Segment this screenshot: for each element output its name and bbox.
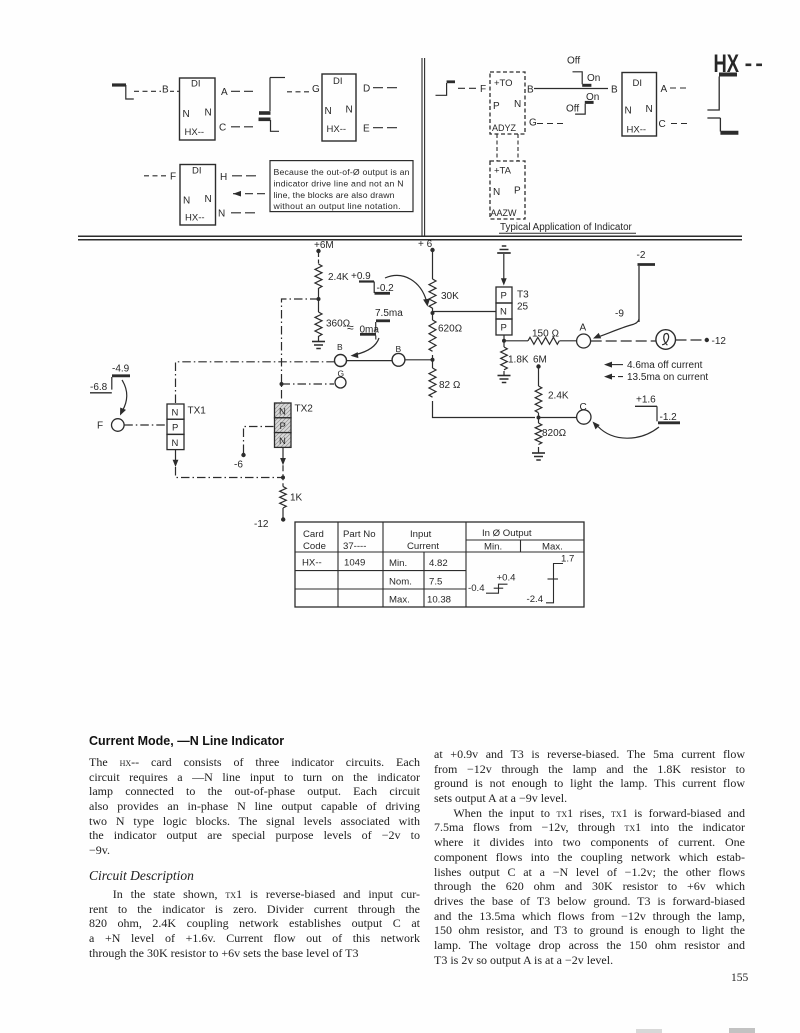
wire 30K to 620	[432, 308, 434, 320]
svg-text:P: P	[501, 291, 507, 302]
junction dot 620/82	[431, 358, 435, 362]
arrow TX2 emitter down	[280, 448, 286, 466]
svg-text:F: F	[97, 421, 103, 432]
svg-text:N: N	[183, 196, 190, 207]
svg-text:N: N	[183, 109, 190, 120]
arrow waveform to circle C	[593, 422, 660, 439]
wire circle B right to divider junction	[405, 359, 433, 361]
node -6	[234, 453, 246, 471]
svg-text:B: B	[396, 344, 402, 354]
wire 82 to coupling node	[433, 401, 536, 418]
svg-text:H: H	[220, 172, 227, 183]
svg-text:G: G	[312, 84, 320, 95]
wire 2.4K to 820	[538, 413, 540, 423]
svg-text:E: E	[363, 124, 370, 135]
svg-text:-2: -2	[637, 250, 646, 261]
waveform on-to-off (lower)	[575, 102, 593, 114]
node circle G	[335, 369, 346, 389]
node circle F	[97, 419, 124, 432]
svg-text:Current: Current	[407, 541, 439, 552]
node +6	[418, 239, 435, 252]
wire 620 to 82	[432, 355, 434, 368]
svg-text:-9: -9	[615, 309, 624, 320]
arrow 4.6ma off current	[604, 360, 703, 371]
svg-text:Min.: Min.	[389, 558, 407, 569]
svg-text:-6: -6	[234, 460, 243, 471]
waveform -2	[637, 250, 656, 322]
resistor 620 ohm	[429, 320, 436, 351]
svg-text:ADYZ: ADYZ	[492, 123, 517, 133]
svg-text:10.38: 10.38	[427, 595, 451, 606]
svg-text:7.5ma: 7.5ma	[375, 308, 403, 319]
svg-text:B: B	[611, 85, 618, 96]
resistor 150 ohm (horizontal)	[528, 337, 559, 344]
wire dashed to B	[134, 90, 161, 92]
node circle C	[577, 402, 591, 424]
horizontal section divider (double rule)	[78, 236, 742, 240]
waveform +1.6/-1.2	[635, 395, 680, 424]
svg-text:Typical Application of Indicat: Typical Application of Indicator	[500, 222, 633, 233]
wire output H	[232, 175, 258, 177]
ground above T3	[497, 246, 511, 253]
svg-text:P: P	[280, 421, 286, 432]
svg-text:F: F	[170, 172, 176, 183]
svg-text:N: N	[500, 307, 507, 318]
waveform -4.9/-6.8	[90, 364, 130, 394]
svg-text:DI: DI	[192, 166, 202, 177]
svg-text:N: N	[625, 106, 632, 117]
svg-text:DI: DI	[333, 76, 343, 87]
svg-text:25: 25	[517, 302, 529, 313]
node circle A	[577, 323, 591, 349]
svg-text:620Ω: 620Ω	[438, 324, 462, 335]
logic block U2 HX (DI)	[322, 74, 356, 141]
svg-text:+0.4: +0.4	[497, 573, 517, 584]
svg-text:6M: 6M	[533, 355, 547, 366]
waveform input F (step-up)	[436, 82, 456, 96]
node -12 (lamp)	[705, 336, 727, 347]
waveform 7.5ma/0ma	[347, 308, 403, 340]
wire -6 to TX2 base	[244, 427, 275, 454]
node +6M	[314, 240, 334, 253]
junction dot T3/150/1.8K	[502, 339, 506, 343]
arrow from note box to block U3	[233, 191, 269, 197]
svg-text:On: On	[587, 73, 600, 84]
indicator block AAZW (+TA)	[490, 161, 525, 219]
svg-text:Nom.: Nom.	[389, 577, 412, 588]
ground (360 ohm)	[312, 342, 325, 349]
arrow 13.5ma on current	[604, 372, 708, 383]
svg-text:-6.8: -6.8	[90, 382, 108, 393]
svg-text:D: D	[363, 84, 370, 95]
page number	[731, 972, 748, 984]
wire F to TX1	[124, 424, 167, 426]
svg-text:N: N	[205, 108, 212, 119]
svg-text:2.4K: 2.4K	[548, 391, 569, 402]
wire output C	[231, 126, 255, 128]
min output waveform	[468, 573, 516, 595]
svg-text:DI: DI	[191, 79, 201, 90]
logic block U4 HX (DI)	[622, 73, 657, 137]
svg-text:G: G	[529, 118, 537, 129]
svg-text:1049: 1049	[344, 558, 365, 569]
wire output A	[231, 90, 254, 92]
wire T3 emitter down	[503, 335, 505, 347]
svg-text:In Ø Output: In Ø Output	[482, 528, 532, 539]
wire TX2 to 1K	[282, 465, 284, 486]
ground (820)	[532, 453, 545, 460]
resistor 30K	[429, 279, 436, 308]
wire output N	[231, 212, 256, 214]
node circle B	[335, 342, 347, 367]
bottom two-column text	[89, 734, 420, 960]
svg-text:N: N	[325, 106, 332, 117]
svg-text:F: F	[480, 84, 486, 95]
svg-text:P: P	[493, 101, 500, 112]
svg-text:A: A	[661, 84, 668, 95]
junction dot 2.4K/820/C	[537, 416, 541, 420]
transistor TX1	[167, 404, 206, 450]
svg-text:A: A	[221, 87, 228, 98]
svg-text:≈: ≈	[347, 321, 354, 335]
svg-text:37----: 37----	[343, 541, 366, 552]
wire output C	[671, 123, 691, 125]
wire 1K to -12	[282, 508, 284, 518]
svg-text:Max.: Max.	[542, 542, 563, 553]
node circle B (right)	[392, 344, 405, 366]
logic block U3 HX (DI)	[180, 165, 216, 226]
wire junction to T3 base	[433, 311, 497, 313]
connector ADYZ to AAZW (right)	[517, 134, 519, 161]
svg-text:HX--: HX--	[327, 124, 347, 135]
svg-text:-4.9: -4.9	[112, 364, 130, 375]
svg-text:Card: Card	[303, 529, 324, 540]
svg-text:-12: -12	[254, 519, 269, 530]
resistor 2.4K (left)	[315, 264, 322, 288]
svg-text:-2.4: -2.4	[527, 594, 544, 605]
waveform input G (two-bar step)	[259, 78, 286, 132]
wire output A	[670, 87, 687, 89]
svg-text:13.5ma on current: 13.5ma on current	[627, 372, 708, 383]
svg-text:2.4K: 2.4K	[328, 272, 349, 283]
wire +6 to 30K	[432, 252, 434, 279]
output A waveform (large)	[707, 75, 737, 111]
svg-text:Off: Off	[567, 56, 580, 67]
wire 1.8K to ground	[503, 371, 505, 375]
wire junction to 150 ohm	[506, 340, 528, 342]
svg-text:T3: T3	[517, 290, 529, 301]
svg-text:+6M: +6M	[314, 240, 334, 251]
note box	[270, 161, 413, 212]
svg-text:P: P	[172, 423, 178, 434]
wire B to block	[170, 90, 179, 92]
table data text	[302, 558, 451, 606]
connector ADYZ to AAZW (left)	[496, 134, 498, 161]
svg-text:HX--: HX--	[627, 125, 647, 136]
svg-text:HX--: HX--	[185, 127, 205, 138]
svg-text:1.7: 1.7	[561, 554, 574, 565]
output C waveform (large)	[707, 118, 738, 133]
arrow waveform to circle F	[120, 380, 127, 416]
wire dashed to F	[458, 87, 477, 89]
svg-text:+0.9: +0.9	[351, 271, 371, 282]
svg-text:HX--: HX--	[185, 213, 205, 224]
HX-- card title	[714, 50, 763, 78]
indicator block ADYZ (+TO)	[490, 72, 525, 134]
lamp	[656, 330, 676, 350]
wire output E	[373, 127, 397, 129]
svg-text:DI: DI	[633, 78, 643, 89]
svg-text:C: C	[659, 119, 666, 130]
svg-text:AAZW: AAZW	[491, 208, 518, 218]
svg-text:1K: 1K	[290, 493, 303, 504]
bottom edge scan smudges	[636, 1029, 662, 1033]
svg-text:TX1: TX1	[188, 406, 207, 417]
junction dot 2.4K/360	[317, 297, 321, 301]
wire lamp to -12	[676, 339, 705, 341]
max output waveform	[527, 554, 575, 606]
wire circle A to lamp	[591, 340, 656, 342]
wire output D	[373, 87, 397, 89]
wire G stub	[537, 123, 565, 125]
logic block U1 HX (DI)	[180, 78, 216, 140]
wire circle B to circle B right	[346, 360, 392, 362]
arrow 0ma to circle B	[351, 338, 380, 358]
svg-text:30K: 30K	[441, 291, 459, 302]
svg-text:P: P	[514, 186, 521, 197]
svg-text:N: N	[218, 209, 225, 220]
wire 2.4K to 360	[318, 288, 320, 312]
svg-text:-12: -12	[712, 336, 727, 347]
wire dash-dot TX1 to circle B	[176, 362, 335, 404]
arrow -2 line to circle A	[593, 319, 639, 339]
svg-text:N: N	[493, 187, 500, 198]
svg-text:B: B	[337, 342, 343, 352]
svg-text:HX--: HX--	[302, 558, 322, 569]
junction dot below TX2	[281, 476, 285, 480]
ground (1.8K)	[498, 376, 511, 383]
svg-text:Max.: Max.	[389, 595, 410, 606]
node -12	[254, 517, 285, 530]
svg-text:Because the out-of-Ø output is: Because the out-of-Ø output is an	[274, 167, 410, 177]
svg-text:N: N	[205, 194, 212, 205]
svg-text:B: B	[527, 85, 534, 96]
arrow ground into T3 collector	[501, 254, 507, 286]
vertical section divider (double rule)	[422, 58, 425, 236]
table header text	[303, 528, 563, 553]
svg-text:A: A	[580, 323, 587, 334]
svg-text:B: B	[162, 85, 169, 96]
svg-text:TX2: TX2	[295, 404, 314, 415]
svg-text:Input: Input	[410, 529, 432, 540]
svg-text:N: N	[279, 436, 286, 447]
svg-text:C: C	[219, 123, 226, 134]
svg-text:4.82: 4.82	[429, 558, 448, 569]
svg-text:-1.2: -1.2	[660, 412, 678, 423]
svg-text:82 Ω: 82 Ω	[439, 380, 461, 391]
resistor 820 ohm	[535, 423, 542, 445]
wire junction to circle C	[541, 417, 577, 419]
wire 150 to circle A	[560, 340, 577, 342]
svg-text:C: C	[580, 402, 587, 413]
transistor T3	[496, 287, 529, 335]
svg-text:7.5: 7.5	[429, 577, 442, 588]
svg-text:N: N	[279, 406, 286, 417]
waveform +0.9/-0.2	[351, 271, 394, 294]
svg-text:Code: Code	[303, 541, 326, 552]
resistor 1K	[280, 487, 287, 509]
node 6M	[533, 355, 547, 369]
wire dashed to circle G	[282, 383, 335, 385]
svg-text:150 Ω: 150 Ω	[532, 329, 559, 340]
resistor 82 ohm	[429, 368, 436, 397]
svg-text:N: N	[172, 408, 179, 419]
table row rules	[466, 539, 584, 541]
wire +6M to R 2.4K	[318, 253, 320, 264]
svg-text:4.6ma off current: 4.6ma off current	[627, 360, 703, 371]
wire dashed to F	[144, 175, 166, 177]
resistor 360 ohm	[315, 312, 322, 336]
resistor 2.4K (right)	[535, 386, 542, 413]
svg-text:P: P	[501, 323, 507, 334]
wire 360 to ground	[318, 336, 320, 341]
svg-text:N: N	[172, 438, 179, 449]
arrow waveform to 30K junction	[385, 275, 430, 306]
wire B line to DI block	[534, 88, 608, 90]
transistor TX2 (shaded)	[275, 403, 314, 447]
wire dashed junction to TX2 column	[282, 299, 319, 402]
wire 820 to ground	[538, 447, 540, 453]
svg-text:Min.: Min.	[484, 542, 502, 553]
svg-text:without an output line notatio: without an output line notation.	[273, 201, 401, 211]
svg-text:+1.6: +1.6	[636, 395, 656, 406]
svg-text:+TA: +TA	[494, 166, 512, 177]
svg-text:indicator drive line and not a: indicator drive line and not an N	[274, 178, 404, 188]
svg-text:1.8K: 1.8K	[508, 355, 529, 366]
svg-text:line, the blocks are also draw: line, the blocks are also drawn	[274, 190, 395, 200]
svg-text:N: N	[646, 104, 653, 115]
wire dashed to G	[287, 91, 309, 93]
wire 6M to 2.4K	[538, 368, 540, 386]
arrow TX1 emitter down	[173, 450, 179, 467]
table column rules	[338, 522, 466, 607]
spec table frame	[295, 522, 584, 607]
waveform input B (step-down)	[112, 85, 134, 99]
svg-text:N: N	[346, 105, 353, 116]
junction dot 30K/620	[431, 311, 435, 315]
wire TX1 to TX2 bottom (dashed)	[176, 467, 284, 478]
waveform off-to-on (upper)	[573, 72, 592, 86]
svg-text:+ 6: + 6	[418, 239, 433, 250]
resistor 1.8K	[501, 347, 508, 370]
svg-text:Off: Off	[566, 104, 579, 115]
svg-text:N: N	[514, 99, 521, 110]
svg-text:-0.4: -0.4	[468, 583, 485, 594]
junction dot at TX2 column	[280, 382, 284, 386]
svg-text:+TO: +TO	[494, 78, 513, 89]
svg-text:Part No: Part No	[343, 529, 376, 540]
svg-text:820Ω: 820Ω	[542, 428, 566, 439]
